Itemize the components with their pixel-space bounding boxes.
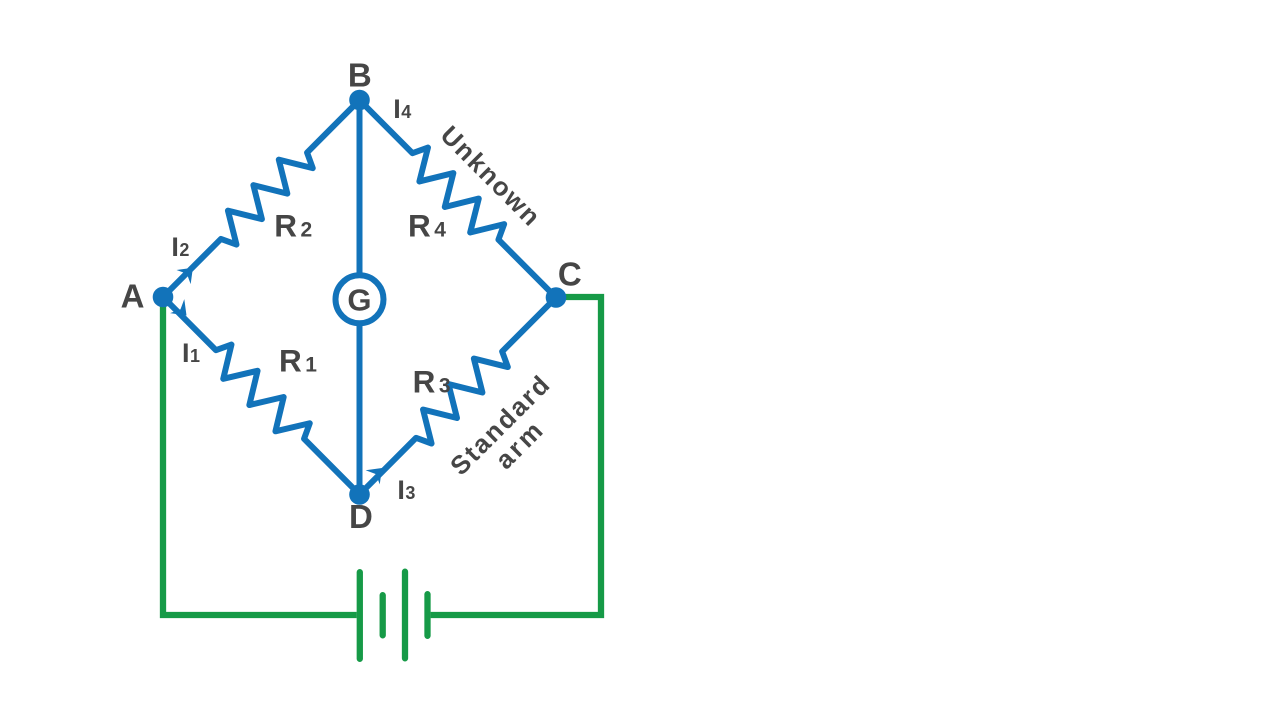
svg-text:B: B	[348, 57, 372, 94]
svg-text:C: C	[558, 255, 582, 292]
svg-text:D: D	[349, 498, 373, 535]
svg-text:A: A	[121, 277, 145, 314]
svg-text:G: G	[347, 282, 372, 317]
